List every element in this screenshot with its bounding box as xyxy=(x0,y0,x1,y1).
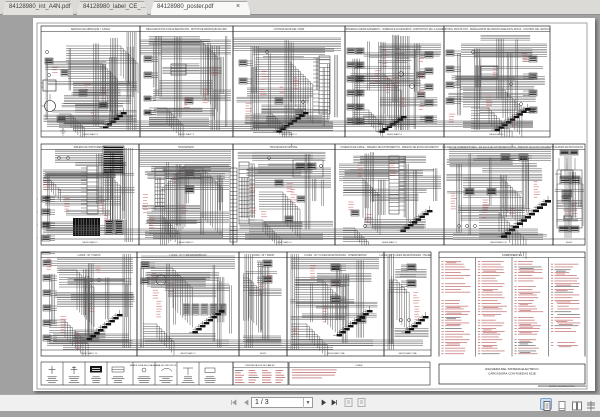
svg-text:SB413: SB413 xyxy=(260,353,267,355)
circle refs xyxy=(472,51,523,106)
ground G xyxy=(60,128,66,135)
wire fan xyxy=(353,110,383,138)
section footer label row2 col5 xyxy=(444,239,553,244)
connector pair column row1s4 xyxy=(356,48,364,124)
vertical bus left xyxy=(388,254,393,350)
wire bus left top xyxy=(43,170,87,184)
connector stacks right xyxy=(523,56,537,113)
switch bank xyxy=(465,188,496,195)
svg-text:PELIGRO DE INTERRUPTORES - PAL: PELIGRO DE INTERRUPTORES - PALANCA DE IN… xyxy=(442,146,554,149)
svg-text:LUCES - 30 Y LIMPIAPARABRISAS: LUCES - 30 Y LIMPIAPARABRISAS xyxy=(169,254,206,257)
svg-text:CONEXION DE CABLE - TABLERO DE: CONEXION DE CABLE - TABLERO DE INSTRUMEN… xyxy=(340,146,439,149)
wire stair big xyxy=(479,212,526,259)
section footer label row3 col1 xyxy=(41,350,137,355)
wire mesh net xyxy=(44,38,137,126)
alarm connector cluster B xyxy=(562,190,572,197)
symbol legend frame xyxy=(41,362,233,385)
connector stacks left xyxy=(347,48,362,124)
wire bus top xyxy=(291,258,379,269)
connector dark X602 xyxy=(115,220,127,234)
wire fan lower-left xyxy=(59,114,85,142)
vertical bus left xyxy=(291,254,298,350)
connectors dark X601 xyxy=(105,220,117,234)
svg-text:TRANSMISION: TRANSMISION xyxy=(178,146,194,149)
pressure switch S2 xyxy=(364,218,374,228)
section footer label row1 col5 xyxy=(444,131,550,136)
wire mesh net xyxy=(555,172,584,221)
red labels right row1s4 xyxy=(419,58,424,110)
wire fan fanout xyxy=(253,114,291,146)
key switch S1 xyxy=(45,51,53,65)
connector X603 xyxy=(185,170,194,177)
right margin white row1 xyxy=(551,27,586,137)
wire trunk top xyxy=(139,150,231,166)
section frame row2 col3 xyxy=(233,144,335,245)
svg-text:SIMBOLOGIA DEL DIAGRAMA DE CIR: SIMBOLOGIA DEL DIAGRAMA DE CIRCUITOS xyxy=(130,364,177,367)
svg-text:TABLERO DE INSTRUMENTOS: TABLERO DE INSTRUMENTOS xyxy=(73,146,107,149)
relay K1 xyxy=(79,90,87,96)
wire elbow bundle xyxy=(178,168,222,237)
wire bus lower xyxy=(453,234,543,239)
wire fan xyxy=(149,216,180,247)
section frame row1 col5 xyxy=(444,26,550,137)
vertical bus left xyxy=(251,46,258,130)
lamp icons xyxy=(90,279,101,282)
wire elbow xyxy=(151,268,192,327)
svg-text:CONTROL POR PILOTO - SEÑALIZAD: CONTROL POR PILOTO - SEÑALIZADOR DE MARC… xyxy=(442,28,552,31)
wire bus lower xyxy=(463,122,533,127)
wire bus lower xyxy=(67,116,133,123)
svg-text:SB409 MAZO 10: SB409 MAZO 10 xyxy=(490,241,507,244)
svg-text:SB412 MAZO 5: SB412 MAZO 5 xyxy=(180,352,196,355)
wire labels xyxy=(250,183,297,217)
wire fan xyxy=(343,228,369,252)
row gap white band 2 xyxy=(41,246,586,252)
component K7 xyxy=(295,110,303,116)
svg-text:INTERFAZ A DESPLAZAMIENTO - IN: INTERFAZ A DESPLAZAMIENTO - INTERFAZ E A… xyxy=(346,28,444,31)
connector XL6 xyxy=(141,262,155,284)
svg-text:CARGADORA CON RUEDAS 621E: CARGADORA CON RUEDAS 621E xyxy=(488,372,536,376)
svg-text:SB407 MAZO 4: SB407 MAZO 4 xyxy=(276,241,292,244)
vertical chain xyxy=(565,156,571,238)
wire labels xyxy=(451,181,540,218)
page number box xyxy=(251,397,313,408)
wire mesh net xyxy=(142,162,231,235)
section frame row2 col4 xyxy=(335,144,444,245)
dark connector block row2s1 xyxy=(103,146,124,174)
connector staircase row2s4 xyxy=(397,206,433,232)
wire labels xyxy=(413,292,420,320)
fuse box FB1 xyxy=(73,218,100,236)
wire trunk top xyxy=(461,44,547,56)
wire bundle turn xyxy=(161,40,220,114)
wire labels xyxy=(259,275,273,295)
connector stacks top xyxy=(501,154,528,161)
pilot module A5 xyxy=(481,66,498,79)
wire mesh net xyxy=(238,152,333,229)
svg-text:CONTROLADOR DEL VISOR: CONTROLADOR DEL VISOR xyxy=(274,28,305,31)
section frame row2 col1 xyxy=(41,144,139,245)
connector X301 xyxy=(239,60,253,84)
connector staircase big row2s5 xyxy=(498,196,552,238)
wire elbow xyxy=(59,270,94,327)
left margin white xyxy=(38,24,41,388)
wire labels xyxy=(293,265,340,333)
wire bus top xyxy=(141,256,235,269)
svg-text:ALARMA DE RETROCESO: ALARMA DE RETROCESO xyxy=(555,146,584,149)
relay K5 xyxy=(417,92,425,98)
connector staircase row3s2 xyxy=(189,306,225,333)
bottom cluster row1s4 xyxy=(376,112,407,133)
wire elbows mid xyxy=(355,74,401,130)
section frame row3 col5 xyxy=(384,252,431,356)
battery B1 xyxy=(38,74,56,92)
wire bus mid xyxy=(73,82,137,91)
relay K3 xyxy=(185,98,193,104)
svg-text:SB405 MAZO 2: SB405 MAZO 2 xyxy=(82,241,98,244)
wire labels xyxy=(565,200,577,216)
wire trunk top xyxy=(449,148,551,161)
connector stacks left xyxy=(43,260,57,341)
wire labels xyxy=(375,50,406,107)
row1 bottom trunk bus 2 xyxy=(73,127,333,131)
row2 bottom trunk bus 2 xyxy=(153,235,453,239)
svg-text:ESQUEMA DEL SISTEMA ELECTRICO: ESQUEMA DEL SISTEMA ELECTRICO xyxy=(485,367,539,371)
big wire fan row2s2 xyxy=(161,165,229,251)
section header row1 col4 xyxy=(345,28,444,32)
svg-text:SB401 MAZO 2: SB401 MAZO 2 xyxy=(179,133,195,136)
vertical trunk xyxy=(395,36,409,130)
svg-text:SERVICIO DE ARRANQUE Y CARGA: SERVICIO DE ARRANQUE Y CARGA xyxy=(71,28,111,31)
display module A3 xyxy=(313,56,330,114)
svg-text:LUCES - 30 Y RADIO: LUCES - 30 Y RADIO xyxy=(252,254,274,257)
wire bus lower xyxy=(145,340,229,345)
section footer label row3 col4 xyxy=(287,350,384,355)
section footer label row1 col3 xyxy=(233,131,345,136)
center circles row1s4 xyxy=(399,72,415,89)
wire fan xyxy=(43,178,60,201)
wire elbow bundle xyxy=(463,88,522,137)
section header row1 col3 xyxy=(233,28,345,32)
wire labels xyxy=(149,167,188,228)
section header row3 col5 xyxy=(379,254,436,258)
wire mesh net xyxy=(44,153,134,231)
wire labels xyxy=(47,259,101,349)
svg-text:SB408 MAZO 1: SB408 MAZO 1 xyxy=(382,241,398,244)
section header row2 col3 xyxy=(233,146,335,150)
section footer label row3 col5 xyxy=(384,350,431,355)
vertical bus right xyxy=(211,46,220,130)
section frame row2 col2 xyxy=(139,144,233,245)
connector X606 xyxy=(297,196,305,202)
svg-text:LUCES - 30 Y FAROS: LUCES - 30 Y FAROS xyxy=(78,254,101,257)
connector stacks left xyxy=(446,50,461,104)
connector X608 xyxy=(351,210,359,216)
alternator G1 xyxy=(61,70,68,76)
connector staircase row1s3 xyxy=(273,108,309,133)
row3 bottom trunk bus xyxy=(47,340,423,346)
vertical bus xyxy=(123,254,130,348)
row3 bottom trunk bus 2 xyxy=(63,346,333,350)
section footer label row3 col3 xyxy=(239,350,287,355)
wire elbow xyxy=(295,280,340,337)
wire bus lower xyxy=(145,232,223,237)
connector staircase row3s1 xyxy=(83,310,122,340)
section frame row3 col4 xyxy=(287,252,384,356)
backup alarm H1 xyxy=(555,164,573,179)
row gap white band 3 xyxy=(41,357,586,362)
alarm cluster bottom xyxy=(559,226,579,232)
svg-text:SB410: SB410 xyxy=(566,242,573,244)
wire bundle charge xyxy=(68,64,118,119)
svg-text:CLAVE: CLAVE xyxy=(355,364,363,367)
section footer label row3 col2 xyxy=(137,350,239,355)
wire fan xyxy=(149,108,183,140)
wire elbow right xyxy=(103,168,120,231)
red stack left row2s2 xyxy=(143,194,148,213)
section footer label row2 col1 xyxy=(41,239,139,244)
section footer label row2 col6 xyxy=(553,239,585,244)
wire bus lower xyxy=(53,334,129,341)
section frame row3 col2 xyxy=(137,252,239,356)
svg-text:LUCES - 30 Y LUCES DE RETROCES: LUCES - 30 Y LUCES DE RETROCESO - INTERM… xyxy=(304,255,367,257)
section header row3 col1 xyxy=(41,254,137,258)
wire mesh net xyxy=(50,263,135,345)
connector X604 xyxy=(185,186,194,193)
svg-text:SB406 MAZO 2: SB406 MAZO 2 xyxy=(178,241,194,244)
section footer label row2 col2 xyxy=(139,239,233,244)
section header row2 col5 xyxy=(442,146,554,150)
svg-text:COMPONENTES: COMPONENTES xyxy=(502,253,523,257)
connector stack left row2s1 xyxy=(42,196,55,254)
flasher module A9 xyxy=(357,316,366,323)
svg-text:IDENTIFICACION DE CABLES: IDENTIFICACION DE CABLES xyxy=(246,364,276,367)
connector X201 xyxy=(144,56,158,78)
connector stack XL13 xyxy=(401,264,416,287)
connector stack XL10 xyxy=(331,264,346,303)
wire labels xyxy=(246,71,300,120)
resistor R3 xyxy=(564,216,572,219)
relay K2 xyxy=(99,102,107,108)
wire identification table xyxy=(233,362,288,385)
wire elbow xyxy=(389,280,409,332)
ref circles left row2s1 xyxy=(38,198,41,240)
wire labels xyxy=(449,53,528,125)
wire bus right xyxy=(399,176,441,189)
section frame row3 col3 xyxy=(239,252,287,356)
relay K4 xyxy=(417,72,425,78)
wire bus mid xyxy=(45,196,121,205)
connector stacks right row1s4 xyxy=(420,52,433,122)
section frame row1 col3 xyxy=(233,26,345,137)
starter motor M1 xyxy=(39,94,56,112)
wire fan xyxy=(291,324,328,359)
section header row3 col4 xyxy=(287,255,384,258)
wire bus lower xyxy=(253,122,333,127)
section footer label row2 col4 xyxy=(335,239,444,244)
section frame row2 col6 xyxy=(553,144,585,245)
section footer label row2 col3 xyxy=(233,239,335,244)
wire fan xyxy=(249,220,281,250)
wire mesh net xyxy=(290,260,377,343)
svg-text:SB402 MAZO 3: SB402 MAZO 3 xyxy=(281,133,297,136)
section header row2 col1 xyxy=(41,146,139,150)
row2 bottom trunk bus xyxy=(47,229,538,235)
component legend entries xyxy=(442,261,581,354)
connector staircase row1s1 xyxy=(100,108,127,128)
component legend table frame xyxy=(439,252,585,361)
lamp cluster xyxy=(458,225,477,228)
row1 bottom trunk bus xyxy=(47,121,533,127)
transmission ladder A7 xyxy=(155,168,165,210)
drawing number xyxy=(538,385,586,388)
section header row3 col2 xyxy=(137,254,239,258)
vertical bus right xyxy=(125,148,132,242)
wire labels xyxy=(152,273,174,317)
subbox row2s3 xyxy=(293,160,323,177)
svg-text:SB414 MAZO 30A: SB414 MAZO 30A xyxy=(327,352,346,355)
connector X203 xyxy=(144,96,156,115)
wire fan xyxy=(143,324,174,355)
circle refs xyxy=(268,157,323,168)
section header row2 col4 xyxy=(335,146,444,150)
wire trunk top xyxy=(140,40,231,54)
section footer label row1 col2 xyxy=(140,131,233,136)
harness ladder X607 xyxy=(389,156,405,214)
notes box xyxy=(289,362,430,385)
gauge icons xyxy=(58,157,70,160)
wire labels xyxy=(44,182,110,222)
section header row2 col6 xyxy=(553,146,585,150)
relay K8 xyxy=(285,216,293,222)
tab bar xyxy=(0,0,600,15)
section header row2 col2 xyxy=(139,146,233,150)
section header row1 col5 xyxy=(442,28,552,32)
wire bus from dark block xyxy=(55,150,103,163)
wire labels xyxy=(52,67,106,124)
title block xyxy=(439,364,585,384)
edge ladder row2s3 xyxy=(230,168,237,242)
wire bus left xyxy=(339,164,389,180)
wire fan big xyxy=(49,320,88,361)
wire mesh net xyxy=(446,154,547,236)
connector staircase row3s5 xyxy=(402,312,429,333)
wire bus to fusebox xyxy=(43,222,73,233)
wire bus lower xyxy=(293,340,373,345)
alarm connector cluster A xyxy=(560,176,580,184)
svg-text:SB400 MAZO 2: SB400 MAZO 2 xyxy=(83,133,99,136)
connector staircase row1s5 xyxy=(491,104,530,131)
relay bank xyxy=(183,304,226,315)
instrument ladder A6 xyxy=(81,166,98,214)
alarm dark blob top xyxy=(560,150,578,155)
wire elbow bundle xyxy=(463,178,522,227)
wire trunk top xyxy=(233,38,341,50)
wire bus mid xyxy=(147,212,229,223)
wire bus mid xyxy=(153,90,231,101)
section header row3 col3 xyxy=(239,254,287,258)
alarm subframe xyxy=(557,170,582,228)
row gap white band 1 xyxy=(41,138,586,144)
wire bus lower xyxy=(363,116,437,123)
wire bus mid xyxy=(247,88,313,97)
wire mesh net xyxy=(237,40,338,127)
wire mesh net xyxy=(448,35,545,130)
connector X610 xyxy=(562,196,570,202)
section frame row1 col2 xyxy=(140,26,233,137)
section header row1 col2 xyxy=(140,28,233,32)
wire elbow xyxy=(343,178,380,235)
wire mesh net xyxy=(350,35,439,129)
bottom toolbar xyxy=(0,394,600,411)
svg-text:PROCESADOR CENTRAL: PROCESADOR CENTRAL xyxy=(270,146,298,149)
wire bus mid xyxy=(57,294,133,307)
wire mesh net xyxy=(344,152,437,228)
gap white row3-legend xyxy=(432,252,439,356)
wire trunk from cpu xyxy=(255,168,331,188)
symbol legend entries xyxy=(46,366,216,383)
wire elbow xyxy=(259,192,300,239)
svg-text:SB403 MAZO 3: SB403 MAZO 3 xyxy=(387,133,403,136)
svg-text:SB404 MAZO 1: SB404 MAZO 1 xyxy=(489,133,505,136)
connector staircase row3s4 xyxy=(333,306,372,336)
section frame row3 col1 xyxy=(41,252,137,356)
alarm wiring xyxy=(557,158,583,226)
tail lamps xyxy=(400,319,411,322)
wire mesh net xyxy=(243,262,281,345)
wire mesh net xyxy=(149,36,227,127)
svg-text:SB411 MAZO 10: SB411 MAZO 10 xyxy=(81,352,98,355)
section frame row1 col4 xyxy=(345,26,444,137)
section header row1 col1 xyxy=(41,28,140,32)
connector X605 xyxy=(275,180,283,186)
wire bus lower xyxy=(149,118,209,125)
wire labels xyxy=(348,160,396,223)
wire bus top xyxy=(57,258,133,272)
vertical bus right xyxy=(127,32,136,130)
wire elbow xyxy=(243,278,261,330)
connector stack XL8 xyxy=(257,260,272,283)
wire bundle to loads xyxy=(66,46,138,93)
section footer label row1 col4 xyxy=(345,131,444,136)
wire bus lower xyxy=(243,336,281,341)
wire mesh net xyxy=(140,264,231,348)
circle refs xyxy=(266,51,305,104)
svg-text:REGULADOR POLO DE ALIMENTACION: REGULADOR POLO DE ALIMENTACION - MOTOR D… xyxy=(146,28,227,31)
section frame row2 col5 xyxy=(444,144,553,245)
processor ladder A8 xyxy=(239,162,255,224)
wire labels xyxy=(184,67,220,111)
wire fan big xyxy=(471,108,512,147)
wire bus lower xyxy=(245,234,323,239)
glow module A2 xyxy=(171,64,186,75)
wire bundle into module xyxy=(255,62,313,124)
grid reference letters xyxy=(38,30,40,373)
fuse link F1 xyxy=(57,116,66,122)
component K6 xyxy=(275,98,283,104)
wire bundle right xyxy=(381,44,441,61)
section frame row1 col1 xyxy=(41,26,140,137)
wire mesh net xyxy=(388,270,429,344)
vertical bus left xyxy=(245,254,252,348)
section footer label row1 col1 xyxy=(41,131,140,136)
svg-text:SB415 MAZO 30A: SB415 MAZO 30A xyxy=(399,352,418,355)
wiper motor M2 xyxy=(156,275,166,285)
